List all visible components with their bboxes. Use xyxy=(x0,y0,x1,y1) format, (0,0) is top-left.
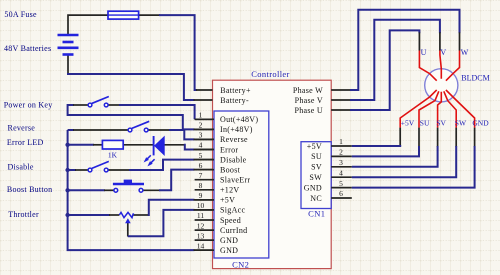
svg-text:2: 2 xyxy=(199,121,203,130)
pin 11 CN2 Speed xyxy=(195,211,241,225)
svg-text:6: 6 xyxy=(339,189,343,198)
pin 3 CN2 Reverse xyxy=(195,131,248,145)
pin 10 CN2 SigAcc xyxy=(195,201,246,215)
svg-text:Reverse: Reverse xyxy=(8,124,36,133)
wire wiper to SigAcc pin 10 xyxy=(128,210,213,236)
svg-text:Phase U: Phase U xyxy=(294,106,323,115)
svg-text:CurrInd: CurrInd xyxy=(220,226,247,235)
svg-text:5: 5 xyxy=(199,151,203,160)
wire GND pin 14 stub xyxy=(194,249,213,251)
svg-text:+12V: +12V xyxy=(220,186,240,195)
wire battery- to Battery- pin xyxy=(67,55,213,101)
svg-text:SU: SU xyxy=(311,152,322,161)
svg-text:4: 4 xyxy=(339,168,343,177)
switch S2 reverse xyxy=(128,121,149,132)
svg-text:Battery+: Battery+ xyxy=(220,86,251,95)
wire battery+ to fuse xyxy=(68,15,108,35)
svg-text:Boost: Boost xyxy=(220,166,241,175)
svg-text:12: 12 xyxy=(197,221,205,230)
svg-text:GND: GND xyxy=(220,236,238,245)
wire motor GND to CN1 pin 5 xyxy=(352,128,475,188)
svg-text:Power on Key: Power on Key xyxy=(4,101,53,110)
switch S1 power on key xyxy=(88,97,109,107)
pin 1 CN2 Out(+48V) xyxy=(195,111,259,125)
battery BT1 48V xyxy=(58,35,79,55)
wire phase W to motor xyxy=(331,10,459,90)
svg-text:V: V xyxy=(440,48,446,57)
svg-text:SU: SU xyxy=(420,118,430,127)
wire boost row xyxy=(68,170,213,191)
pin 14 CN2 GND xyxy=(195,241,239,255)
wire throttle right to +5V pin 9 xyxy=(134,200,213,216)
svg-text:SigAcc: SigAcc xyxy=(220,206,245,215)
svg-text:SV: SV xyxy=(311,163,322,172)
svg-text:CN1: CN1 xyxy=(308,209,325,219)
wire fuse to Battery+ pin xyxy=(139,15,213,90)
svg-text:14: 14 xyxy=(197,241,205,250)
svg-text:W: W xyxy=(461,48,469,57)
svg-text:9: 9 xyxy=(199,191,203,200)
junction at error row xyxy=(65,143,69,147)
svg-text:CN2: CN2 xyxy=(232,259,249,269)
svg-text:3: 3 xyxy=(339,158,343,167)
pin 6 CN2 Boost xyxy=(195,161,241,175)
wire key right to Out(+48V) pin 1 xyxy=(108,105,213,119)
switch S3 disable xyxy=(88,161,109,172)
svg-text:8: 8 xyxy=(199,181,203,190)
svg-text:4: 4 xyxy=(199,141,203,150)
svg-text:Throttler: Throttler xyxy=(8,210,39,219)
svg-text:1: 1 xyxy=(339,137,343,146)
svg-text:GND: GND xyxy=(220,246,238,255)
svg-text:Out(+48V): Out(+48V) xyxy=(220,115,258,124)
pin 9 CN2 +5V xyxy=(195,191,236,205)
svg-text:Error: Error xyxy=(220,145,238,154)
controller box U1 xyxy=(213,80,332,268)
svg-text:5: 5 xyxy=(339,179,343,188)
wire key left to In(+48V) pin 2 xyxy=(68,105,213,129)
wire error row xyxy=(68,144,213,150)
wire reverse row xyxy=(68,130,213,139)
wire motor +5V to CN1 pin 1 xyxy=(352,128,401,146)
wire motor SU to CN1 pin 2 xyxy=(352,128,419,157)
svg-text:Reverse: Reverse xyxy=(220,135,248,144)
connector CN2 box xyxy=(214,111,269,258)
pin 13 CN2 GND xyxy=(195,231,239,245)
ground bus wire (left vertical) xyxy=(68,130,195,250)
svg-text:Phase V: Phase V xyxy=(295,96,323,105)
pin 6 CN1 NC xyxy=(310,189,352,203)
pin 2 CN1 SU xyxy=(311,148,352,162)
svg-text:Battery-: Battery- xyxy=(220,96,249,105)
svg-text:U: U xyxy=(421,48,427,57)
pin 5 CN1 GND xyxy=(304,179,352,193)
svg-text:SV: SV xyxy=(436,118,446,127)
junction at disable row xyxy=(65,168,69,172)
pin 2 CN2 In(+48V) xyxy=(195,121,253,135)
pin 3 CN1 SV xyxy=(311,158,352,172)
svg-text:+5V: +5V xyxy=(307,142,322,151)
pin 1 CN1 +5V xyxy=(307,137,352,151)
svg-text:Phase W: Phase W xyxy=(293,86,323,95)
connector CN1 box xyxy=(301,142,331,209)
svg-text:GND: GND xyxy=(472,118,489,127)
svg-text:+5V: +5V xyxy=(220,196,235,205)
svg-text:Controller: Controller xyxy=(251,69,289,79)
potentiometer RV1 throttle xyxy=(119,212,133,236)
svg-text:SW: SW xyxy=(455,118,467,127)
svg-text:3: 3 xyxy=(199,131,203,140)
wire motor SV to CN1 pin 3 xyxy=(352,128,438,167)
LED D1 xyxy=(144,136,165,166)
svg-text:Disable: Disable xyxy=(220,155,247,164)
wire phase U to motor xyxy=(331,30,419,110)
pin 8 CN2 +12V xyxy=(195,181,240,195)
pin 7 CN2 SlaveErr xyxy=(195,171,251,185)
svg-text:50A Fuse: 50A Fuse xyxy=(4,10,37,19)
svg-text:10: 10 xyxy=(197,201,205,210)
junction at boost row xyxy=(65,188,69,192)
svg-text:48V Batteries: 48V Batteries xyxy=(4,44,51,53)
svg-text:1K: 1K xyxy=(108,151,118,160)
svg-text:SW: SW xyxy=(309,173,322,182)
svg-text:In(+48V): In(+48V) xyxy=(220,125,253,134)
pin 12 CN2 CurrInd xyxy=(195,221,248,235)
svg-text:Error LED: Error LED xyxy=(7,138,44,147)
svg-text:NC: NC xyxy=(310,194,322,203)
svg-text:13: 13 xyxy=(197,231,205,240)
svg-text:Boost Button: Boost Button xyxy=(7,185,52,194)
push button S4 boost xyxy=(113,180,144,193)
wire disable row xyxy=(68,160,213,170)
pin 4 CN2 Error xyxy=(195,141,239,155)
svg-text:GND: GND xyxy=(304,183,322,192)
fuse F1 50A xyxy=(108,11,139,19)
svg-text:1: 1 xyxy=(199,111,203,120)
svg-text:2: 2 xyxy=(339,148,343,157)
pin 5 CN2 Disable xyxy=(195,151,247,165)
svg-text:Disable: Disable xyxy=(8,163,34,172)
motor BLDCM xyxy=(400,51,474,128)
resistor R1 1K xyxy=(102,140,123,149)
junction at throttle row xyxy=(65,213,69,217)
svg-text:11: 11 xyxy=(197,211,204,220)
svg-text:BLDCM: BLDCM xyxy=(461,73,489,82)
svg-text:+5V: +5V xyxy=(401,118,415,127)
svg-text:6: 6 xyxy=(199,161,203,170)
svg-text:SlaveErr: SlaveErr xyxy=(220,176,250,185)
wire throttle row left xyxy=(68,214,120,216)
wire phase V to motor xyxy=(331,20,440,100)
pin 4 CN1 SW xyxy=(309,168,351,182)
svg-text:7: 7 xyxy=(199,171,203,180)
svg-text:Speed: Speed xyxy=(220,216,241,225)
wire motor SW to CN1 pin 4 xyxy=(352,128,456,178)
